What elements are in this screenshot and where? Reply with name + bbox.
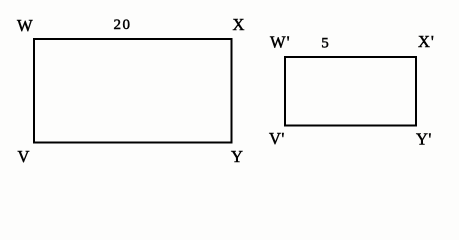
svg-text:Y: Y [231, 147, 243, 166]
rectangle WXYV [34, 39, 232, 143]
svg-text:W': W' [270, 33, 291, 52]
svg-text:20: 20 [114, 17, 132, 33]
svg-text:W: W [17, 16, 33, 35]
svg-text:V': V' [269, 129, 285, 148]
svg-text:5: 5 [321, 35, 329, 51]
svg-text:X: X [233, 15, 245, 34]
svg-text:Y': Y' [416, 130, 432, 149]
svg-text:X': X' [418, 32, 435, 51]
rectangle W'X'Y'V' [285, 57, 416, 126]
svg-text:V: V [18, 147, 30, 166]
